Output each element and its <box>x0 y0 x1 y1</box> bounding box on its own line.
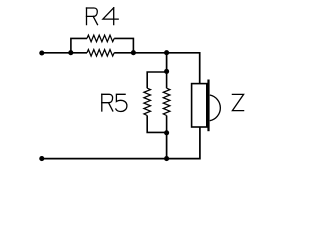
label Z <box>232 94 243 110</box>
wire bottom rail to Z bottom <box>167 127 200 159</box>
terminal dot bottom-left <box>39 156 44 161</box>
wire node B to Z top <box>167 53 200 84</box>
junction dot R4 right <box>131 50 136 55</box>
resistor R4 lower branch <box>71 50 134 57</box>
resistor R5 right branch <box>163 71 170 132</box>
terminal dot top-left <box>39 50 44 55</box>
junction dot R5 top <box>164 69 169 74</box>
junction dot node B <box>164 50 169 55</box>
label R5 <box>102 94 127 111</box>
resistor R5 left branch <box>144 72 167 132</box>
label R4 <box>87 8 119 25</box>
wire R4 right to node B <box>133 52 166 54</box>
junction dot R4 left <box>68 50 73 55</box>
junction dot bottom node <box>164 156 169 161</box>
resistor R4 upper branch <box>71 35 133 53</box>
wire node B down to R5 top junction <box>166 53 168 72</box>
junction dot R5 bottom <box>164 130 169 135</box>
wire R5 bottom to bottom rail <box>166 133 168 159</box>
wire bottom rail <box>42 158 167 160</box>
wire terminal to R4 left junction <box>42 52 71 54</box>
transducer Z body <box>192 80 221 132</box>
